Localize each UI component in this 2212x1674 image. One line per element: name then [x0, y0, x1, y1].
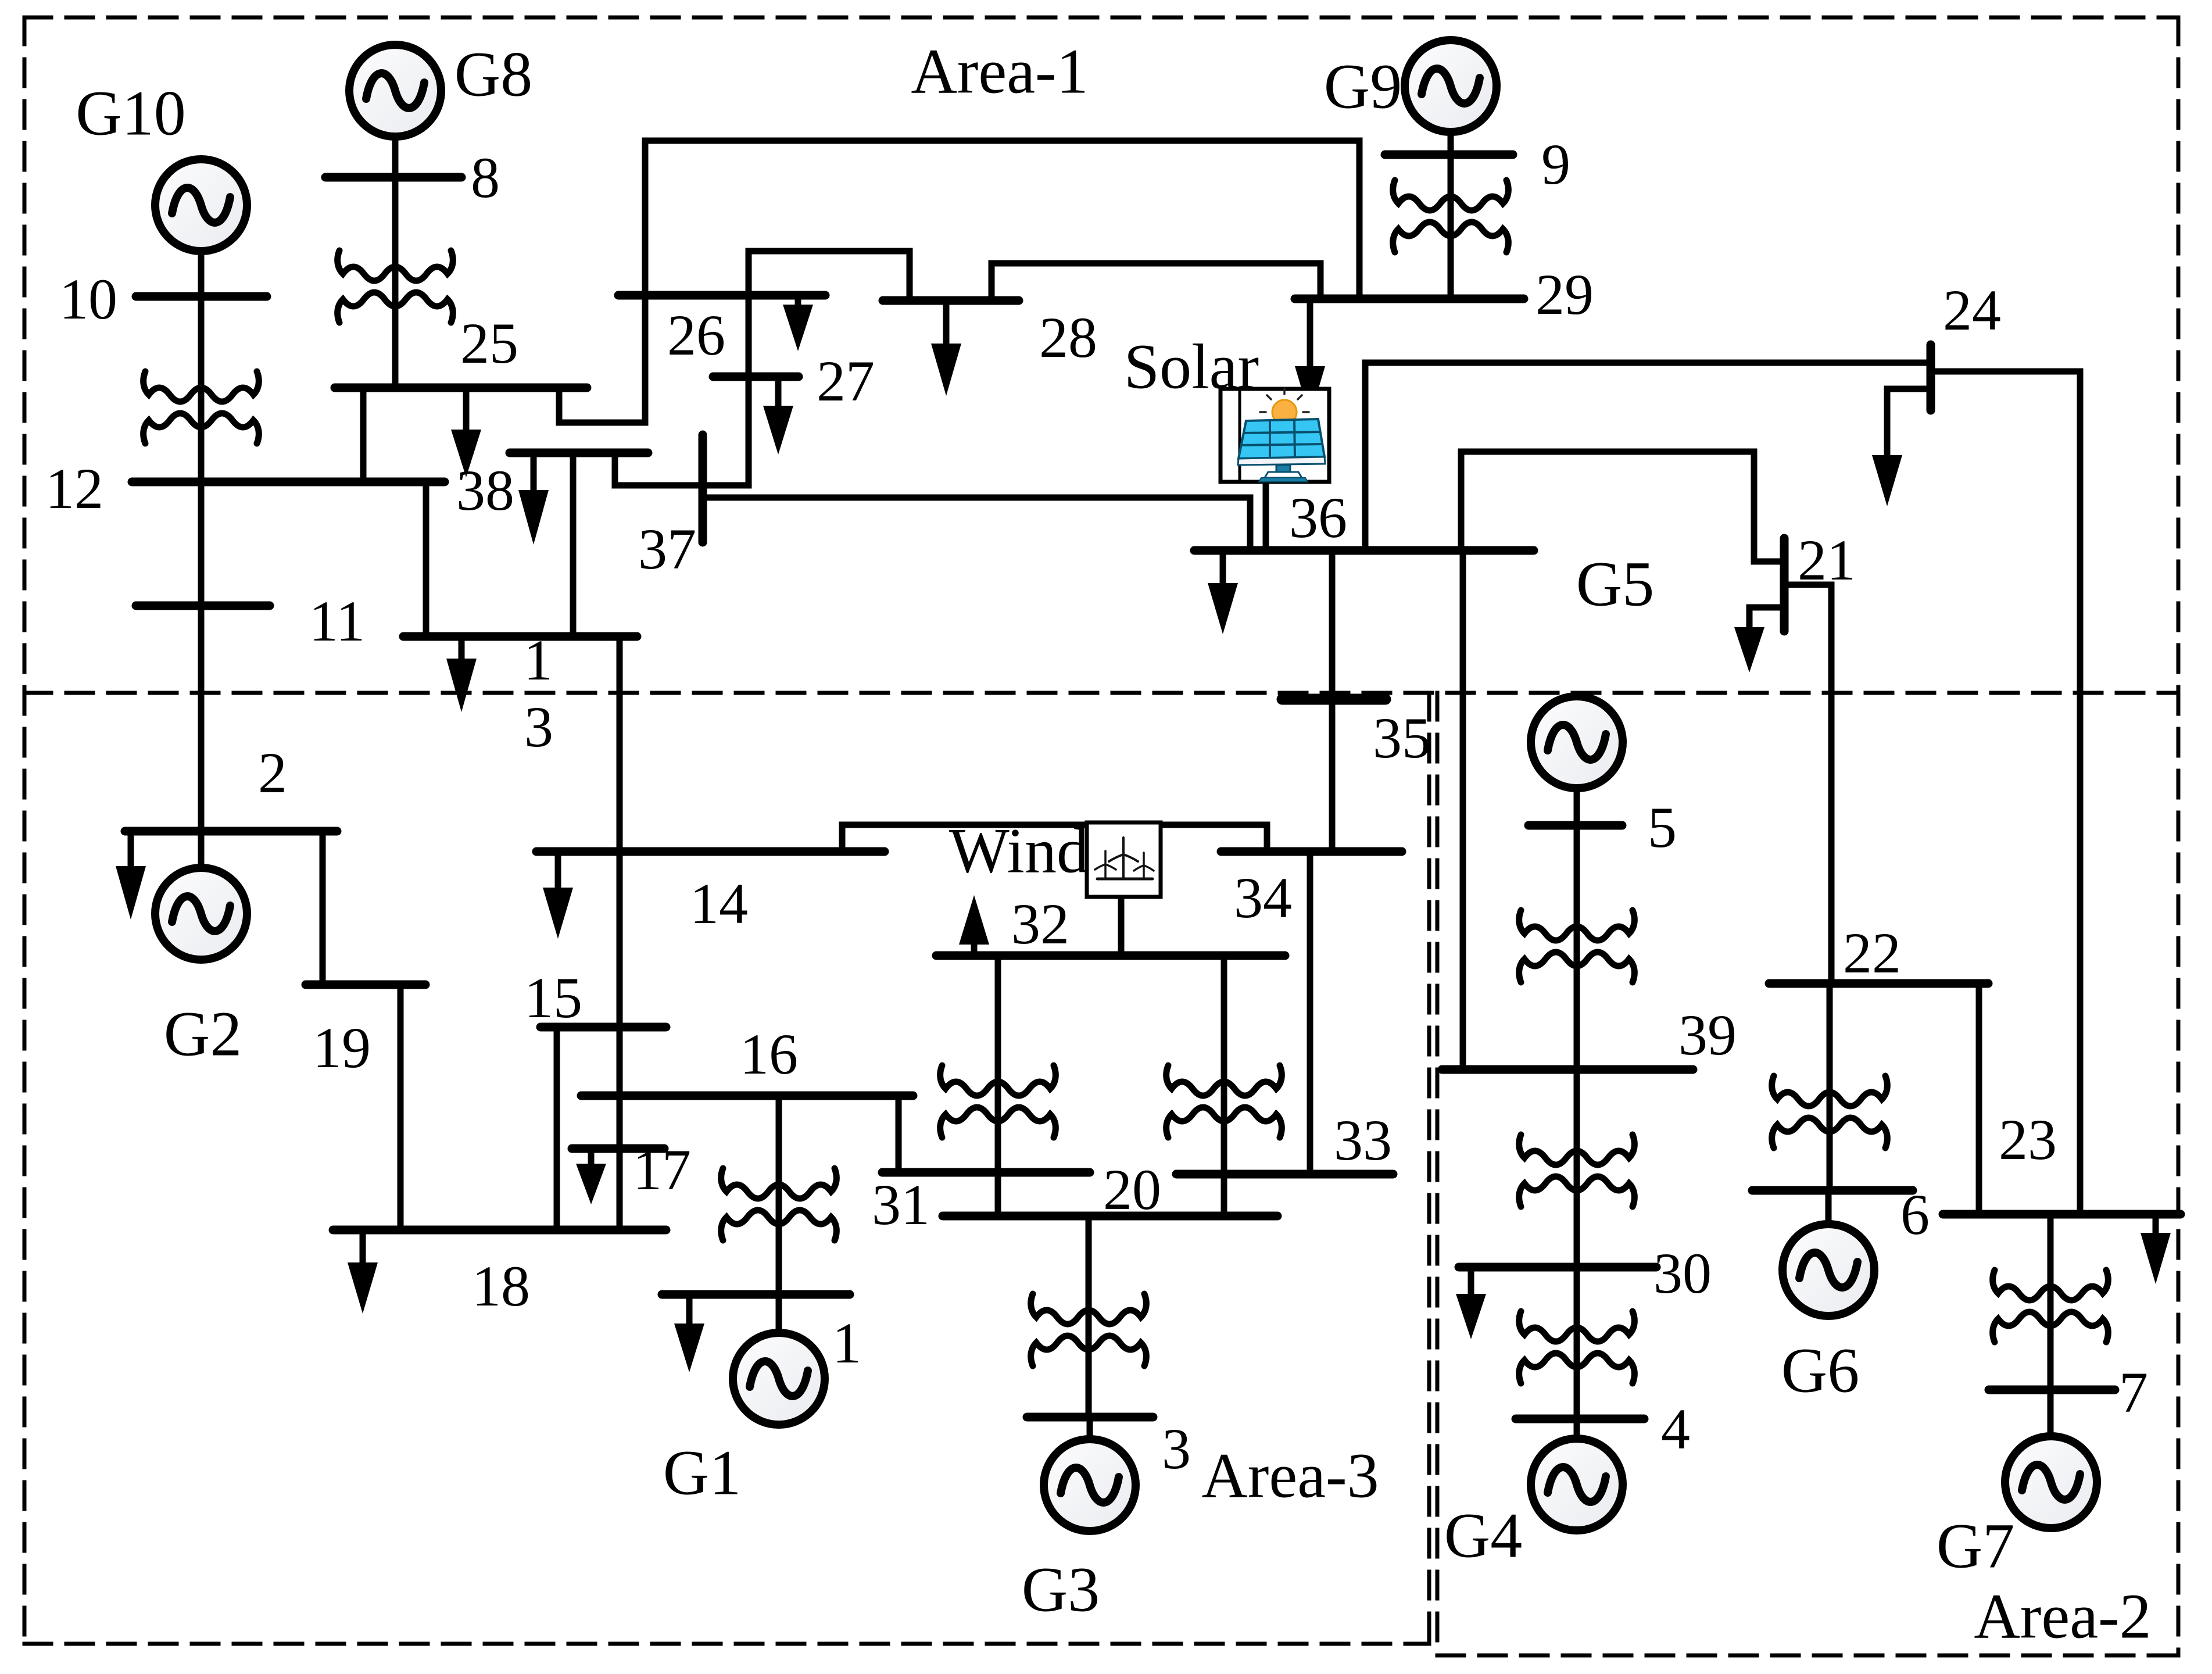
svg-text:37: 37 — [638, 517, 696, 581]
svg-text:26: 26 — [667, 303, 725, 367]
svg-text:Wind: Wind — [949, 815, 1089, 886]
svg-text:11: 11 — [309, 589, 365, 653]
svg-text:28: 28 — [1039, 305, 1097, 370]
svg-text:29: 29 — [1535, 262, 1594, 327]
svg-text:G3: G3 — [1022, 1554, 1100, 1625]
svg-text:4: 4 — [1661, 1397, 1690, 1461]
svg-text:3: 3 — [1162, 1417, 1191, 1481]
svg-text:7: 7 — [2119, 1360, 2148, 1425]
svg-text:3: 3 — [524, 695, 553, 759]
svg-text:G5: G5 — [1576, 549, 1654, 620]
svg-text:14: 14 — [690, 871, 748, 936]
svg-text:2: 2 — [258, 741, 287, 805]
svg-text:G9: G9 — [1324, 51, 1402, 122]
svg-text:24: 24 — [1943, 278, 2001, 342]
svg-text:1: 1 — [524, 628, 553, 692]
svg-text:38: 38 — [456, 458, 514, 523]
svg-text:33: 33 — [1334, 1108, 1392, 1172]
svg-text:17: 17 — [633, 1138, 691, 1202]
svg-text:25: 25 — [460, 311, 518, 375]
svg-text:G1: G1 — [663, 1437, 741, 1508]
svg-text:G10: G10 — [76, 78, 185, 149]
svg-text:5: 5 — [1648, 795, 1677, 860]
svg-text:20: 20 — [1103, 1157, 1161, 1222]
svg-text:23: 23 — [1999, 1107, 2057, 1172]
svg-text:34: 34 — [1234, 865, 1292, 930]
svg-text:1: 1 — [832, 1311, 861, 1375]
svg-text:19: 19 — [313, 1015, 371, 1080]
svg-text:10: 10 — [59, 267, 117, 331]
svg-text:8: 8 — [471, 145, 500, 210]
svg-text:31: 31 — [872, 1172, 930, 1237]
svg-text:27: 27 — [817, 349, 875, 413]
svg-text:9: 9 — [1541, 132, 1570, 196]
svg-text:15: 15 — [524, 965, 582, 1030]
svg-text:Solar: Solar — [1124, 331, 1259, 402]
svg-text:36: 36 — [1289, 485, 1347, 550]
svg-text:Area-3: Area-3 — [1201, 1440, 1379, 1511]
svg-text:22: 22 — [1843, 921, 1901, 985]
svg-text:G2: G2 — [164, 999, 242, 1069]
svg-text:G6: G6 — [1781, 1335, 1859, 1406]
svg-text:G4: G4 — [1444, 1500, 1522, 1571]
svg-text:30: 30 — [1653, 1241, 1712, 1305]
svg-text:16: 16 — [740, 1022, 798, 1086]
svg-text:21: 21 — [1798, 528, 1856, 592]
svg-text:12: 12 — [45, 456, 103, 521]
svg-text:Area-2: Area-2 — [1974, 1581, 2151, 1652]
svg-text:G7: G7 — [1937, 1511, 2014, 1582]
svg-text:Area-1: Area-1 — [911, 36, 1088, 107]
svg-text:32: 32 — [1011, 892, 1069, 956]
svg-text:G8: G8 — [454, 39, 532, 110]
svg-text:6: 6 — [1900, 1182, 1930, 1247]
svg-text:18: 18 — [472, 1254, 530, 1318]
svg-text:35: 35 — [1373, 706, 1431, 770]
svg-text:39: 39 — [1678, 1003, 1737, 1067]
